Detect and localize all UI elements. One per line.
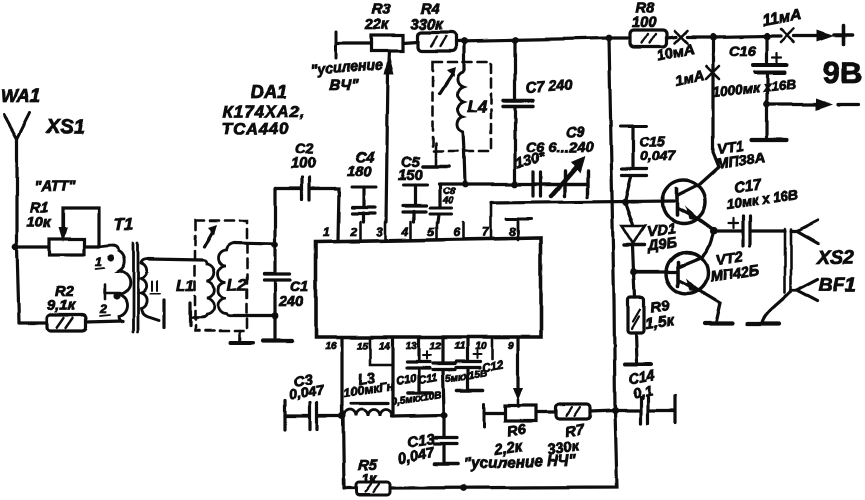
capacitor C2	[275, 142, 339, 240]
DA1 top pin stubs 2..8	[360, 203, 518, 240]
wire R4 to R8 top rail	[456, 38, 630, 41]
wire L2 bottom to C1 riser	[234, 314, 275, 317]
svg-text:XS1: XS1	[46, 116, 85, 138]
svg-text:1: 1	[95, 255, 102, 269]
svg-text:C7 240: C7 240	[525, 78, 574, 97]
node top rail x767	[763, 32, 770, 39]
svg-text:180: 180	[347, 164, 372, 180]
capacitor C15	[620, 126, 676, 202]
capacitor C3	[285, 372, 342, 430]
capacitor C10	[395, 337, 432, 393]
wire rail down to VT1 collector	[699, 37, 719, 185]
svg-text:1к: 1к	[362, 471, 378, 486]
node base wire x625	[622, 199, 629, 206]
svg-text:0,5мкх10В: 0,5мкх10В	[391, 390, 442, 408]
capacitor C8 40 pin5	[430, 184, 456, 222]
capacitor C7	[503, 40, 574, 184]
resistor R5	[344, 458, 390, 495]
svg-text:DA1: DA1	[251, 82, 287, 102]
svg-text:C10: C10	[395, 372, 418, 387]
T1 secondary winding	[141, 259, 159, 320]
T1 primary winding	[99, 246, 130, 321]
svg-text:330к: 330к	[411, 17, 445, 33]
arrow to minus supply	[767, 102, 818, 105]
ground under C1	[263, 339, 292, 343]
node R7 C14	[611, 406, 618, 413]
svg-text:5: 5	[428, 225, 435, 239]
resistor R8	[630, 1, 667, 47]
svg-text:240: 240	[278, 294, 304, 310]
potentiometer R3	[364, 2, 403, 222]
svg-text:0,047: 0,047	[640, 147, 676, 163]
node C16 minus	[764, 101, 771, 108]
DA1 top pin numbers	[323, 225, 516, 239]
svg-text:16: 16	[325, 341, 337, 352]
svg-text:"усиление: "усиление	[310, 56, 383, 77]
svg-text:Д9Б: Д9Б	[645, 235, 678, 255]
capacitor C13	[397, 415, 458, 468]
svg-text:L1: L1	[176, 278, 194, 295]
wire L2 top to C1/C2 riser	[234, 243, 275, 244]
node L2 top	[272, 242, 279, 249]
svg-text:R6: R6	[506, 422, 528, 441]
ground under XS2	[747, 321, 779, 325]
node C3 L3 junction	[338, 412, 345, 419]
variable capacitor C9	[541, 125, 586, 196]
svg-text:9В: 9В	[823, 55, 863, 90]
svg-text:C11: C11	[417, 372, 438, 387]
svg-text:22к: 22к	[364, 17, 390, 33]
svg-text:1,5к: 1,5к	[644, 313, 675, 333]
plus terminal	[834, 26, 852, 44]
capacitor C4	[347, 150, 376, 222]
shield box around L1 L2	[195, 221, 247, 331]
svg-text:BF1: BF1	[819, 274, 856, 296]
node top rail x609	[606, 35, 613, 42]
inductor L3	[342, 371, 395, 416]
svg-text:ВЧ": ВЧ"	[329, 77, 359, 94]
node top rail x463	[461, 38, 468, 45]
current break X at +9V	[767, 34, 781, 37]
antenna WA1	[1, 86, 40, 247]
node at R1 left	[13, 244, 20, 251]
pin10 stub	[491, 337, 494, 359]
svg-text:XS2: XS2	[816, 247, 854, 269]
T1 secondary marker II	[150, 281, 160, 294]
T1 core	[134, 243, 139, 332]
wire pin9 to R6 wiper	[516, 337, 519, 390]
capacitor C5	[398, 155, 427, 222]
node top rail x515	[512, 37, 519, 44]
svg-text:ТСА440: ТСА440	[222, 119, 289, 138]
terminal bar under R9	[625, 363, 651, 367]
svg-text:R4: R4	[421, 2, 440, 18]
svg-text:1мА: 1мА	[674, 68, 706, 90]
svg-text:100: 100	[291, 156, 316, 172]
svg-text:C1: C1	[290, 279, 309, 295]
terminal bar under T1 secondary	[162, 300, 165, 327]
wire node down to R5	[343, 416, 344, 488]
svg-text:Т1: Т1	[114, 215, 134, 234]
svg-text:0,047: 0,047	[397, 444, 437, 467]
wire VD1 to VT2 base	[634, 270, 677, 273]
svg-text:10к: 10к	[27, 215, 52, 231]
svg-text:R3: R3	[372, 2, 391, 18]
inductor L4	[457, 70, 487, 184]
svg-text:9,1к: 9,1к	[47, 298, 76, 314]
svg-text:C9: C9	[566, 125, 586, 141]
T1 primary dot bottom	[113, 292, 120, 299]
diode VD1	[622, 202, 678, 272]
svg-text:R1: R1	[30, 200, 49, 216]
terminal bar right of C9	[565, 182, 588, 185]
svg-text:C16: C16	[729, 44, 757, 60]
svg-text:1: 1	[323, 225, 330, 239]
ground under VT2 emitter	[704, 321, 732, 325]
svg-text:"АТТ": "АТТ"	[34, 179, 76, 195]
inductor L1	[176, 260, 214, 326]
svg-text:14: 14	[379, 341, 391, 352]
svg-text:8: 8	[509, 225, 516, 239]
svg-text:1000мк х16В: 1000мк х16В	[712, 76, 797, 100]
capacitor C1	[264, 189, 309, 338]
svg-text:WA1: WA1	[1, 86, 40, 106]
inductor L2	[218, 243, 247, 316]
current break X 1mA	[706, 66, 719, 79]
capacitor C11	[417, 337, 455, 415]
svg-text:150: 150	[398, 168, 423, 184]
svg-text:13: 13	[406, 341, 418, 352]
svg-text:11мА: 11мА	[761, 6, 803, 30]
node bottom rail	[461, 485, 468, 492]
svg-text:100мкГн: 100мкГн	[342, 379, 395, 400]
T1 primary tap terminal 2	[105, 284, 120, 299]
DA1 bottom pin numbers	[325, 341, 514, 352]
svg-text:6: 6	[453, 225, 460, 239]
resistor R7	[536, 404, 615, 459]
resistor R4	[403, 2, 456, 51]
IC DA1 K174XA2	[222, 82, 541, 337]
wire L3 to C13 node	[392, 415, 444, 416]
svg-text:9: 9	[508, 341, 514, 352]
wire T1 secondary to L1	[148, 259, 203, 260]
node L2 bottom	[272, 313, 279, 320]
node VT1 emitter VT2 collector	[710, 227, 717, 234]
svg-text:2: 2	[99, 302, 107, 316]
terminal bar under L1	[188, 303, 191, 326]
capacitor C12	[456, 337, 505, 390]
svg-text:40: 40	[442, 195, 454, 206]
potentiometer R6	[484, 404, 536, 459]
wire XS2 sleeve to ground	[763, 292, 790, 321]
wire pin7 to VT1 base	[491, 201, 674, 203]
ground under C16	[765, 104, 768, 137]
svg-text:4: 4	[401, 225, 409, 239]
wire pin6 node line	[439, 182, 587, 185]
wire pin14 down	[391, 337, 394, 416]
long feedback wire top rail to R7 node	[609, 38, 615, 410]
wire pin15 to pin14	[370, 337, 393, 365]
svg-text:L4: L4	[467, 97, 487, 116]
svg-text:10мА: 10мА	[656, 41, 696, 65]
svg-text:L2: L2	[227, 275, 247, 294]
arrow to plus supply	[794, 34, 819, 37]
transformer T1	[95, 215, 164, 332]
wire rail down into L4	[462, 41, 465, 70]
resistor R2	[19, 284, 123, 331]
wire antenna down to R2	[17, 247, 19, 323]
svg-text:100: 100	[632, 15, 657, 31]
capacitor C16	[712, 36, 797, 104]
potentiometer R1	[16, 200, 99, 255]
svg-text:"усиление НЧ": "усиление НЧ"	[464, 452, 577, 473]
svg-text:7: 7	[482, 225, 490, 239]
capacitor C14	[615, 367, 675, 423]
terminal усиление ВЧ	[310, 32, 383, 94]
svg-text:3: 3	[376, 225, 383, 239]
resistor R9	[628, 272, 676, 362]
shield box around L4	[433, 62, 491, 151]
node VT2 base wire	[631, 269, 638, 276]
tuning arrow in shield box	[204, 231, 213, 247]
current break X after R8	[667, 37, 713, 38]
wire rail to C16 node	[713, 36, 767, 37]
svg-text:11: 11	[454, 341, 465, 352]
terminal at L4 box bottom left	[435, 143, 438, 165]
svg-text:15: 15	[357, 341, 369, 352]
terminal above pin8	[506, 218, 531, 221]
capacitor C17	[714, 177, 799, 246]
tuning arrow in L4 box	[440, 73, 453, 93]
svg-text:0,1: 0,1	[632, 382, 654, 401]
capacitor C6 130	[514, 140, 595, 196]
node top rail x713	[709, 33, 716, 40]
svg-text:130*: 130*	[514, 149, 548, 172]
transistor VT1	[663, 138, 767, 230]
ground under shield box	[239, 331, 242, 341]
T1 primary dot top	[107, 254, 114, 261]
node x515 y184	[512, 181, 519, 188]
jack XS2	[785, 220, 854, 301]
wire pin16 down	[340, 337, 343, 416]
node x465 y184	[462, 181, 469, 188]
svg-text:12: 12	[430, 341, 442, 352]
bottom rail R5 to x617	[390, 410, 617, 488]
node C13	[440, 411, 447, 418]
svg-text:2: 2	[349, 225, 357, 239]
transistor VT2	[666, 232, 761, 321]
svg-text:R7: R7	[564, 422, 586, 441]
